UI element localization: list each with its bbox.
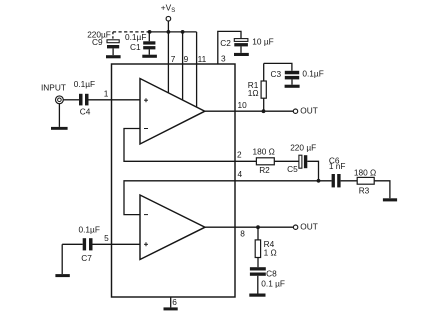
input terminal INPUT (41, 82, 66, 127)
wire dashed optional branch to C9 (113, 32, 150, 40)
wire op-amp A2 output pin 8 to OUT (205, 226, 294, 228)
resistor R3 180 ohm (354, 168, 376, 196)
wire to C7 (62, 243, 82, 245)
svg-text:6: 6 (172, 297, 177, 307)
wire pin 1 to op-amp non-inverting input (89, 99, 141, 101)
ground of R3 (383, 198, 397, 201)
pin number 9 (184, 54, 189, 64)
capacitor C4 0.1uF (74, 79, 95, 117)
svg-text:C2: C2 (220, 38, 231, 48)
pin number 7 (171, 54, 176, 64)
pin number 3 (221, 53, 226, 63)
svg-text:10 µF: 10 µF (252, 36, 273, 46)
node output/R4 junction (256, 225, 260, 229)
svg-text:C4: C4 (80, 107, 91, 117)
svg-text:3: 3 (221, 53, 226, 63)
svg-text:7: 7 (171, 54, 176, 64)
svg-text:5: 5 (104, 233, 109, 243)
ground of C8 (249, 294, 265, 297)
node rail-Vs junction (167, 30, 171, 34)
ground of pin 6 (164, 307, 178, 310)
node rail-C1 junction (148, 30, 152, 34)
svg-text:0.1µF: 0.1µF (79, 224, 100, 234)
svg-text:INPUT: INPUT (41, 82, 66, 92)
svg-text:R3: R3 (359, 186, 370, 196)
pin number 5 (104, 233, 109, 243)
pin number 2 (237, 149, 242, 159)
svg-text:R2: R2 (259, 165, 270, 175)
svg-text:1 nF: 1 nF (329, 161, 346, 171)
wire R1 top to C3 (264, 63, 292, 70)
wire inverting input feedback to pin 4 and out to C6 (124, 181, 332, 215)
ground of C7 leg (55, 274, 69, 277)
power terminal +Vs (161, 3, 175, 21)
wire +Vs down to pin 7 (167, 21, 169, 93)
wire pin 11 (196, 32, 198, 107)
svg-text:0.1µF: 0.1µF (74, 79, 95, 89)
svg-text:C7: C7 (81, 253, 92, 263)
capacitor C8 0.1uF (250, 267, 285, 293)
svg-text:180 Ω: 180 Ω (253, 147, 275, 157)
node output/R1 junction (262, 109, 266, 113)
wire C6 to R3 (341, 180, 358, 182)
capacitor C6 1nF (329, 155, 346, 187)
ground of C9 (106, 55, 121, 58)
capacitor C5 220uF (287, 143, 316, 174)
svg-text:220 µF: 220 µF (290, 143, 316, 153)
op-amp A1 (upper) (140, 79, 205, 145)
pin number 11 (198, 54, 207, 64)
wire input to C4 (63, 99, 79, 101)
svg-text:OUT: OUT (300, 222, 318, 232)
pin number 6 (172, 297, 177, 307)
wire inverting input feedback to pin 2 and out to R2 (124, 129, 256, 162)
op-amp A2 (lower) (140, 195, 205, 260)
svg-text:C1: C1 (130, 42, 141, 52)
node C5/pin4 junction (317, 179, 321, 183)
svg-text:0.1 µF: 0.1 µF (261, 278, 285, 288)
svg-text:C5: C5 (287, 164, 298, 174)
resistor R4 1 ohm (255, 227, 277, 267)
svg-text:1: 1 (104, 89, 109, 99)
wire R2 to C5 (274, 160, 299, 162)
pin number 8 (240, 229, 245, 239)
IC outline U1 (112, 64, 236, 297)
svg-text:C3: C3 (271, 69, 282, 79)
svg-text:C9: C9 (92, 37, 103, 47)
svg-text:0.1µF: 0.1µF (125, 32, 146, 42)
resistor R1 1 ohm (248, 63, 267, 111)
wire pin 3 to C2 (218, 31, 241, 64)
svg-text:2: 2 (237, 149, 242, 159)
resistor R2 180 ohm (253, 147, 275, 175)
wire pin 5 to op-amp non-inverting input (93, 243, 141, 245)
node rail-pin9 junction (181, 30, 185, 34)
ground of input terminal (51, 127, 68, 130)
svg-text:0.1µF: 0.1µF (302, 68, 323, 78)
ground of C1 (142, 55, 157, 58)
svg-text:OUT: OUT (300, 106, 318, 116)
capacitor C9 220uF (87, 29, 119, 55)
pin number 10 (238, 100, 248, 110)
capacitor C1 0.1uF (125, 32, 155, 55)
capacitor C7 0.1uF (79, 224, 100, 263)
svg-text:1 Ω: 1 Ω (264, 248, 277, 258)
wire supply rail (150, 31, 197, 33)
wire C5 down to pin4 node (307, 161, 318, 181)
ground of C2 (234, 53, 249, 56)
svg-text:C8: C8 (266, 269, 277, 279)
wire C7 ground leg (61, 244, 63, 274)
ground of C3 (285, 85, 300, 88)
svg-text:11: 11 (198, 54, 207, 64)
wire op-amp A1 output pin 10 to OUT (205, 110, 294, 112)
capacitor C2 10uF (220, 36, 273, 53)
output terminal OUT (upper) (293, 106, 318, 116)
pin number 1 (104, 89, 109, 99)
capacitor C3 0.1uF (271, 68, 324, 84)
output terminal OUT (lower) (293, 222, 317, 232)
wire pin 6 stub (170, 297, 172, 307)
pin number 4 (238, 169, 243, 179)
wire pin 9 (182, 32, 184, 100)
svg-text:1Ω: 1Ω (248, 88, 259, 98)
svg-text:180 Ω: 180 Ω (354, 168, 376, 178)
svg-text:8: 8 (240, 229, 245, 239)
svg-text:10: 10 (238, 100, 248, 110)
svg-text:9: 9 (184, 54, 189, 64)
wire R3 to ground (374, 181, 390, 199)
svg-text:4: 4 (238, 169, 243, 179)
